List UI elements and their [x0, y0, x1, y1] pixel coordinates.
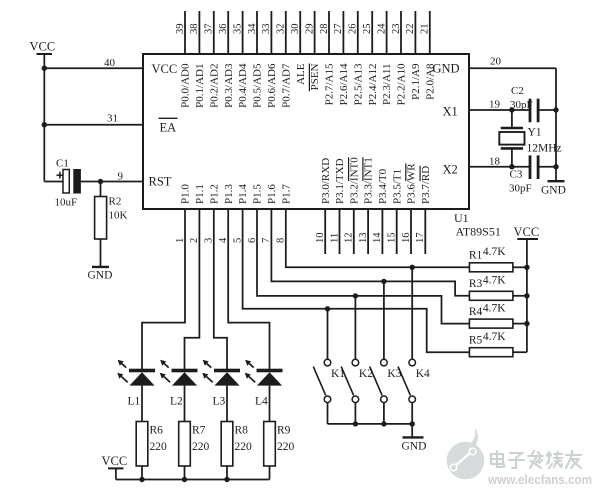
svg-text:P3.1/TXD: P3.1/TXD [334, 158, 346, 204]
svg-text:220: 220 [150, 441, 168, 453]
svg-text:37: 37 [204, 24, 215, 35]
svg-text:32: 32 [276, 24, 287, 35]
svg-text:C2: C2 [511, 85, 524, 97]
svg-text:36: 36 [218, 24, 229, 35]
svg-text:P2.5/A13: P2.5/A13 [352, 63, 364, 105]
svg-text:P1.4: P1.4 [237, 184, 249, 204]
svg-text:P2.1/A9: P2.1/A9 [410, 63, 422, 100]
svg-text:P1.7: P1.7 [280, 184, 292, 204]
svg-text:29: 29 [304, 24, 315, 35]
svg-text:10K: 10K [109, 210, 128, 222]
svg-text:28: 28 [319, 24, 330, 35]
svg-text:P2.2/A10: P2.2/A10 [396, 63, 408, 105]
svg-text:R5: R5 [469, 335, 483, 347]
svg-text:24: 24 [376, 23, 387, 34]
svg-text:P0.6/AD6: P0.6/AD6 [266, 63, 278, 108]
svg-text:www.elecfans.com: www.elecfans.com [487, 472, 592, 487]
svg-text:34: 34 [247, 23, 258, 34]
svg-text:25: 25 [362, 24, 373, 35]
svg-text:VCC: VCC [30, 40, 56, 54]
svg-text:P2.6/A14: P2.6/A14 [338, 63, 350, 105]
svg-text:10uF: 10uF [55, 197, 78, 209]
svg-text:220: 220 [235, 441, 253, 453]
svg-text:38: 38 [189, 24, 200, 35]
svg-text:AT89S51: AT89S51 [456, 225, 501, 239]
svg-text:16: 16 [401, 233, 412, 244]
svg-text:PSEN: PSEN [309, 63, 321, 90]
svg-text:4.7K: 4.7K [483, 331, 506, 343]
svg-text:22: 22 [405, 24, 416, 35]
svg-text:4.7K: 4.7K [483, 246, 506, 258]
svg-text:12: 12 [344, 233, 355, 244]
svg-text:L2: L2 [170, 396, 183, 408]
svg-text:VCC: VCC [102, 454, 128, 468]
svg-text:11: 11 [329, 233, 340, 243]
svg-text:P2.3/A11: P2.3/A11 [381, 64, 393, 105]
svg-text:27: 27 [333, 24, 344, 35]
svg-text:R6: R6 [150, 425, 164, 437]
svg-text:K4: K4 [416, 368, 430, 380]
svg-text:Y1: Y1 [528, 127, 542, 139]
svg-text:R1: R1 [469, 250, 483, 262]
svg-text:21: 21 [420, 24, 431, 35]
svg-text:30pF: 30pF [509, 183, 532, 195]
svg-text:19: 19 [489, 99, 501, 111]
svg-text:P0.5/AD5: P0.5/AD5 [252, 63, 264, 108]
svg-text:20: 20 [490, 56, 502, 68]
svg-text:R3: R3 [469, 278, 483, 290]
svg-text:12MHz: 12MHz [527, 143, 562, 155]
svg-text:P0.3/AD3: P0.3/AD3 [223, 63, 235, 108]
svg-text:40: 40 [104, 57, 116, 69]
svg-text:C1: C1 [56, 158, 69, 170]
svg-text:RST: RST [149, 175, 172, 189]
svg-text:P3.4/T0: P3.4/T0 [377, 168, 389, 204]
svg-text:10: 10 [315, 233, 326, 244]
svg-text:P3.5/T1: P3.5/T1 [391, 169, 403, 204]
svg-text:P0.7/AD7: P0.7/AD7 [280, 63, 292, 108]
svg-text:P3.0/RXD: P3.0/RXD [320, 158, 332, 204]
svg-text:4.7K: 4.7K [483, 302, 506, 314]
svg-text:P3.2/INT0: P3.2/INT0 [348, 157, 360, 204]
svg-text:P0.4/AD4: P0.4/AD4 [237, 63, 249, 108]
svg-text:P1.0: P1.0 [180, 184, 192, 204]
svg-text:P1.1: P1.1 [194, 184, 206, 204]
svg-text:R7: R7 [192, 425, 206, 437]
svg-text:P1.6: P1.6 [266, 184, 278, 204]
svg-text:R2: R2 [109, 196, 122, 208]
svg-text:23: 23 [391, 24, 402, 35]
svg-text:X2: X2 [443, 163, 458, 177]
svg-text:30: 30 [290, 24, 301, 35]
svg-text:GND: GND [433, 62, 460, 76]
svg-text:X1: X1 [443, 105, 458, 119]
svg-text:L3: L3 [213, 396, 226, 408]
svg-text:L4: L4 [255, 396, 268, 408]
svg-text:P0.0/AD0: P0.0/AD0 [180, 63, 192, 108]
svg-text:C3: C3 [510, 169, 523, 181]
svg-text:EA: EA [160, 121, 177, 135]
svg-text:P3.6/WR: P3.6/WR [406, 163, 418, 204]
svg-text:P1.3: P1.3 [223, 184, 235, 204]
svg-text:R8: R8 [235, 425, 249, 437]
svg-text:4.7K: 4.7K [483, 275, 506, 287]
svg-text:P3.3/INT1: P3.3/INT1 [363, 157, 375, 204]
svg-text:P2.7/A15: P2.7/A15 [324, 63, 336, 105]
svg-text:9: 9 [118, 171, 124, 183]
svg-text:33: 33 [261, 24, 272, 35]
svg-text:P0.2/AD2: P0.2/AD2 [208, 64, 220, 108]
svg-text:U1: U1 [454, 211, 469, 225]
svg-text:14: 14 [372, 232, 383, 243]
svg-text:220: 220 [192, 441, 210, 453]
svg-text:VCC: VCC [152, 62, 178, 76]
svg-text:220: 220 [277, 441, 295, 453]
svg-text:18: 18 [489, 156, 501, 168]
svg-text:GND: GND [541, 185, 566, 197]
svg-text:39: 39 [175, 24, 186, 35]
svg-text:L1: L1 [128, 396, 141, 408]
svg-text:ALE: ALE [295, 63, 307, 85]
svg-text:P1.5: P1.5 [252, 184, 264, 204]
svg-text:GND: GND [88, 270, 113, 282]
svg-text:P0.1/AD1: P0.1/AD1 [194, 64, 206, 108]
svg-text:31: 31 [107, 113, 118, 125]
svg-text:R4: R4 [469, 306, 483, 318]
svg-text:15: 15 [387, 233, 398, 244]
svg-text:26: 26 [348, 24, 359, 35]
svg-text:R9: R9 [277, 425, 291, 437]
svg-text:GND: GND [402, 441, 427, 453]
svg-text:17: 17 [415, 233, 426, 244]
svg-text:VCC: VCC [514, 225, 540, 239]
svg-text:13: 13 [358, 233, 369, 244]
svg-text:P1.2: P1.2 [208, 184, 220, 204]
svg-text:P3.7/RD: P3.7/RD [420, 166, 432, 204]
svg-text:P2.4/A12: P2.4/A12 [367, 64, 379, 106]
svg-text:35: 35 [232, 24, 243, 35]
